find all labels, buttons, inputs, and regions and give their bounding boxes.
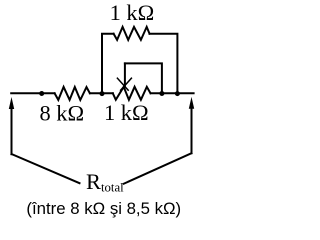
junction dot top-loop-left xyxy=(100,91,105,96)
left terminal arrow shaft xyxy=(11,105,13,154)
resistor 8 kΩ xyxy=(55,87,90,100)
wiper shaft xyxy=(124,63,126,86)
potentiometer 1 kΩ zigzag xyxy=(113,87,151,100)
top loop right riser xyxy=(150,34,178,94)
right terminal arrow shaft xyxy=(191,105,193,153)
left arrow head xyxy=(9,97,14,109)
right bracket diagonal xyxy=(124,153,192,184)
wire right of pot xyxy=(151,92,194,94)
junction dot wiper xyxy=(159,91,164,96)
svg-text:Rtotal: Rtotal xyxy=(86,169,124,194)
svg-text:1 kΩ: 1 kΩ xyxy=(110,0,155,25)
top loop left riser xyxy=(102,34,114,94)
right arrow head xyxy=(189,97,194,109)
wiper loop wire xyxy=(125,63,162,93)
wire between 8k and pot xyxy=(90,92,113,94)
svg-text:(între 8 kΩ şi 8,5 kΩ): (între 8 kΩ şi 8,5 kΩ) xyxy=(26,199,181,218)
resistor 1 kΩ top zigzag xyxy=(114,27,150,40)
svg-text:1 kΩ: 1 kΩ xyxy=(104,100,149,125)
wiper arrowhead barb 1 xyxy=(117,78,128,90)
svg-text:8 kΩ: 8 kΩ xyxy=(40,100,85,125)
junction dot left xyxy=(39,91,44,96)
wire main left segment xyxy=(11,92,54,94)
wiper arrowhead barb 2 xyxy=(121,78,132,90)
left bracket diagonal xyxy=(12,154,80,183)
junction dot top-loop-right xyxy=(175,91,180,96)
